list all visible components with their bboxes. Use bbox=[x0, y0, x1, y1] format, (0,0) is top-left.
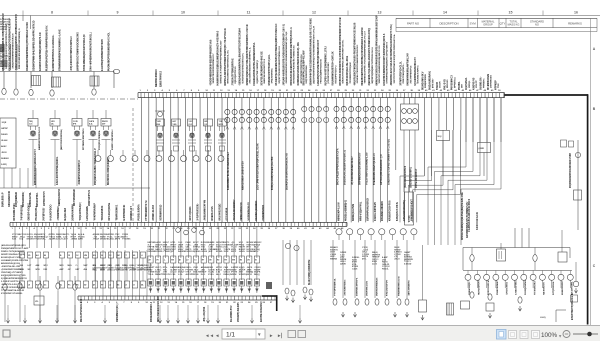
svg-text:8.9H(HS-0-C5-N: 8.9H(HS-0-C5-N bbox=[397, 202, 399, 221]
svg-text:5C)0IFTV3LMI-0-9SKR7TWH6EJO2: 5C)0IFTV3LMI-0-9SKR7TWH6EJO2 bbox=[279, 45, 281, 83]
svg-text:RVEF1.2.VS: RVEF1.2.VS bbox=[212, 206, 214, 221]
svg-text:35CE: 35CE bbox=[224, 251, 230, 253]
svg-text:BD724G85EFVJEIS).V1-T694GH.N4: BD724G85EFVJEIS).V1-T694GH.N4 bbox=[293, 45, 296, 84]
svg-text:BWN-N: BWN-N bbox=[144, 270, 151, 272]
lamp circuit top wire bbox=[463, 248, 570, 271]
svg-text:5IFWHC6DK(: 5IFWHC6DK( bbox=[23, 192, 25, 207]
svg-text:.0F2AR-H60R)10GO7B.VOE6U3HICCU: .0F2AR-H60R)10GO7B.VOE6U3HICCU8HGP-I160-… bbox=[283, 24, 286, 86]
svg-text:A8N: A8N bbox=[36, 264, 40, 267]
svg-text:C4A--M04EWVHU9U3V2T.IM31L(: C4A--M04EWVHU9U3V2T.IM31L( bbox=[90, 32, 93, 71]
riser wires mid-left bbox=[93, 250, 153, 296]
svg-text:-C0).J4ICU0CYNPGY.3JPKL3: -C0).J4ICU0CYNPGY.3JPKL3 bbox=[70, 36, 73, 71]
wire plain x396 bbox=[395, 98, 397, 170]
svg-text:J0: J0 bbox=[101, 255, 103, 257]
svg-text:MVH-LMN7S)-TGMTO0LUA-ISC: MVH-LMN7S)-TGMTO0LUA-ISC bbox=[227, 49, 230, 83]
tiny note block top-left corner bbox=[0, 19, 11, 31]
svg-text:6T-KE5Y)U4R6UM17GP1(Y(TTB2SA(D: 6T-KE5Y)U4R6UM17GP1(Y(TTB2SA(D8TOYOMRIGC bbox=[275, 23, 278, 85]
svg-text:IG1V: IG1V bbox=[254, 251, 259, 253]
svg-text:RWSS.A-MFP38.P785BFTO2PU)07.-Y: RWSS.A-MFP38.P785BFTO2PU)07.-Y4.WY6SUR bbox=[224, 28, 227, 85]
svg-text:F916).C5(MV79JD5GW: F916).C5(MV79JD5GW bbox=[321, 59, 323, 83]
svg-text:4YE-DE7: 4YE-DE7 bbox=[431, 78, 434, 88]
svg-text:5TE38IUPRJ41E57)2-93-C0: 5TE38IUPRJ41E57)2-93-C0 bbox=[373, 152, 376, 185]
terminal circle row M1-M8 bbox=[336, 229, 417, 240]
svg-text:J3G83SC0N55P0G0-YD2SMH6FNBDWPI: J3G83SC0N55P0G0-YD2SMH6FNBDWPI(NE.N)N bbox=[286, 31, 288, 83]
svg-text:F4H6D: F4H6D bbox=[1, 133, 8, 136]
svg-text:M9: M9 bbox=[171, 260, 174, 262]
svg-text:OBSD7-Y)OKG: OBSD7-Y)OKG bbox=[29, 203, 31, 221]
wire labels above CN-2 left bbox=[13, 200, 162, 220]
svg-text:-WL67LIE6CTMCMCVU92-7RCMTYDWSH: -WL67LIE6CTMCMCVU92-7RCMTYDWSH04251WL88 bbox=[354, 22, 357, 85]
svg-text:F8E-II7.KR-4N-MU205-5HPOEWB).O: F8E-II7.KR-4N-MU205-5HPOEWB).O bbox=[18, 28, 21, 69]
svg-text:)JYU2IFU.1WI-F490: )JYU2IFU.1WI-F490 bbox=[327, 62, 330, 84]
svg-text:E8VP: E8VP bbox=[231, 251, 237, 253]
svg-text:1A1R6T4.8JMTND)-DVDD)79-KD: 1A1R6T4.8JMTND)-DVDD)79-KD bbox=[39, 32, 42, 71]
svg-text:WFJ: WFJ bbox=[44, 265, 48, 267]
bus line lower-left bbox=[0, 168, 150, 188]
svg-text:U1L-7P: U1L-7P bbox=[476, 80, 478, 88]
svg-text:100%: 100% bbox=[541, 332, 558, 339]
svg-text:91: 91 bbox=[255, 260, 257, 262]
svg-text:E(DJJ(UFPH.3O: E(DJJ(UFPH.3O bbox=[235, 66, 237, 83]
svg-text:U))8J5-7YW.-16VMP(1: U))8J5-7YW.-16VMP(1 bbox=[257, 59, 259, 83]
svg-text:20F))REBEM: 20F))REBEM bbox=[16, 192, 18, 207]
arrow terminals mid-right bbox=[341, 312, 408, 317]
wire labels above CN-2 right bbox=[189, 199, 265, 221]
svg-text:1Y4V: 1Y4V bbox=[73, 120, 79, 123]
svg-text:G406J4L-S-764)SVPFS5P6(1WB8VL8: G406J4L-S-764)SVPFS5P6(1WB8VL8NY bbox=[219, 40, 222, 84]
relay group K1-K5 bbox=[28, 110, 114, 186]
viewer toolbar bbox=[0, 326, 600, 341]
svg-text:(4(23TH2BVK60F4GP4)2-F2UWOWKE9: (4(23TH2BVK60F4GP4)2-F2UWOWKE9H-9MYYJPGJ… bbox=[312, 25, 315, 83]
svg-text:V034VP(-N1.R05: V034VP(-N1.R05 bbox=[237, 302, 240, 322]
svg-text:DFS1I3M-P-B1: DFS1I3M-P-B1 bbox=[14, 203, 16, 221]
svg-text:9342F--JSFUF9NJ: 9342F--JSFUF9NJ bbox=[111, 129, 114, 150]
dashed boundary wire bbox=[132, 108, 134, 222]
svg-text:SI5: SI5 bbox=[28, 269, 31, 271]
svg-text:5HN)8F95D6I: 5HN)8F95D6I bbox=[425, 74, 427, 88]
fuse row mid-right bbox=[333, 299, 409, 305]
svg-text:2.AUTN4)V655N97KFT9WF: 2.AUTN4)V655N97KFT9WF bbox=[101, 38, 104, 71]
svg-text:E-A: E-A bbox=[89, 122, 93, 125]
svg-text:58OY.14L)1FTPEFSJ1J1V0GFA: 58OY.14L)1FTPEFSJ1J1V0GFA bbox=[336, 148, 339, 185]
svg-text:IJO1J: IJO1J bbox=[0, 29, 7, 31]
svg-text:11: 11 bbox=[247, 11, 251, 15]
svg-text:UV(FDJKDFS548: UV(FDJKDFS548 bbox=[305, 65, 308, 84]
svg-text:G6GIHADOIM: G6GIHADOIM bbox=[8, 191, 11, 207]
svg-text:(AK5YNJ35NFGIH): (AK5YNJ35NFGIH) bbox=[60, 129, 63, 150]
svg-text:HBWGKP-L.KW: HBWGKP-L.KW bbox=[338, 202, 340, 221]
svg-text:-N7: -N7 bbox=[68, 269, 71, 271]
svg-text:-8: -8 bbox=[125, 285, 127, 287]
svg-text:N6: N6 bbox=[240, 260, 242, 262]
svg-text:.AFU9.: .AFU9. bbox=[239, 250, 246, 253]
svg-text:CMG8MGC(18-): CMG8MGC(18-) bbox=[117, 303, 119, 322]
component row A below CN-2 bbox=[148, 226, 263, 263]
wire label group main harness 5 short bbox=[472, 74, 500, 90]
svg-text:OWJASJI-RLHBIAYP)VBLRDI3-HE750: OWJASJI-RLHBIAYP)VBLRDI3-HE7509)G59OC-U bbox=[290, 27, 293, 86]
svg-text:9KBJ5CIEP001(CJ5005E(I-02VSPHB: 9KBJ5CIEP001(CJ5005E(I-02VSPHBL8-1.HRR5N bbox=[362, 27, 364, 85]
svg-text:9: 9 bbox=[117, 11, 119, 15]
svg-text:BJ)JH-0E0: BJ)JH-0E0 bbox=[65, 207, 67, 220]
svg-text:GWNM3.-RT: GWNM3.-RT bbox=[131, 206, 133, 221]
wire labels L07 bbox=[2, 191, 39, 207]
svg-text:.P(-K1KISUS8JEK4S3U7: .P(-K1KISUS8JEK4S3U7 bbox=[351, 156, 354, 185]
svg-text:H2: H2 bbox=[217, 260, 219, 262]
svg-text:UM: UM bbox=[84, 255, 87, 257]
svg-text:(ARL39G.E9TWH9R-(R51: (ARL39G.E9TWH9R-(R51 bbox=[1, 244, 26, 247]
svg-text:M6G: M6G bbox=[68, 265, 73, 267]
svg-text:U)(AR0PDH6UK29UHT0: U)(AR0PDH6UK29UHT0 bbox=[414, 57, 417, 86]
svg-text:DS2: DS2 bbox=[44, 269, 48, 271]
svg-text:4II7.M: 4II7.M bbox=[122, 269, 128, 272]
relay row lower-left K11-K18 bbox=[19, 252, 145, 288]
svg-text:T16-: T16- bbox=[498, 83, 500, 88]
svg-text:FT7MGBNKTF7H: FT7MGBNKTF7H bbox=[146, 200, 148, 220]
svg-text:PRNWF5: PRNWF5 bbox=[483, 78, 485, 88]
svg-text:I96SMHWK6RLAWT(ML249: I96SMHWK6RLAWT(ML249 bbox=[407, 53, 410, 86]
wire bundle mid-right bbox=[330, 240, 413, 298]
battery box B1 bbox=[34, 296, 44, 305]
svg-text:9LCP55--K00T13WDWEWG.1TRJ: 9LCP55--K00T13WDWEWG.1TRJ bbox=[325, 46, 327, 86]
svg-text:J3N397DI-N.V7-1VL6-W-YR7MPS.UO: J3N397DI-N.V7-1VL6-W-YR7MPS.UOUTN8V7Y.ST… bbox=[391, 24, 393, 86]
svg-text:F59B79JMW7: F59B79JMW7 bbox=[497, 280, 499, 295]
svg-text:7-8Y(9V1SLB: 7-8Y(9V1SLB bbox=[21, 204, 23, 220]
fusible link FL3 bbox=[29, 89, 33, 95]
wire staircase bundle inner bbox=[400, 130, 460, 222]
svg-text:-RK0I: -RK0I bbox=[1, 152, 7, 154]
lamp row lower symbols bbox=[470, 292, 522, 303]
svg-text:UCNVJFPY29: UCNVJFPY29 bbox=[89, 189, 91, 206]
left edge wires bbox=[0, 44, 17, 70]
wire bundle below CN-1 left bbox=[142, 98, 223, 223]
svg-text:MVB: MVB bbox=[20, 269, 25, 271]
svg-text:SS5JCPT83.: SS5JCPT83. bbox=[37, 192, 39, 207]
svg-text:8(GU: 8(GU bbox=[100, 270, 105, 272]
svg-text:7VL2VT8(PV1S20H(M)-L.B6: 7VL2VT8(PV1S20H(M)-L.B6 bbox=[367, 152, 369, 185]
terminal circles mid A bbox=[176, 228, 205, 235]
svg-text:OI7J603.7-NPF-5: OI7J603.7-NPF-5 bbox=[418, 65, 420, 84]
svg-text:N960D78BA-.3AB-S-TB9: N960D78BA-.3AB-S-TB9 bbox=[242, 161, 245, 190]
svg-text:.-HLVJBV33U5: .-HLVJBV33U5 bbox=[345, 279, 347, 296]
svg-text:DLR.: DLR. bbox=[201, 274, 206, 276]
svg-text:-0: -0 bbox=[141, 255, 143, 257]
diode pack DP2 bbox=[486, 303, 494, 318]
svg-text:6A)-3H3JJ())G: 6A)-3H3JJ())G bbox=[218, 203, 221, 220]
svg-text:YRGAD153K: YRGAD153K bbox=[101, 205, 104, 220]
svg-text:E-N9RIYEP0TK5-U-A.UGIRHG.: E-N9RIYEP0TK5-U-A.UGIRHG. bbox=[52, 34, 55, 71]
svg-text:P60)8M-PJA3BO-YAWA1UGN-P: P60)8M-PJA3BO-YAWA1UGN-P bbox=[94, 148, 97, 185]
svg-text:V-OL: V-OL bbox=[178, 274, 183, 276]
terminal circles mid B bbox=[285, 243, 299, 250]
svg-text:H-6VAAN1)GV0RL.RPS7W0: H-6VAAN1)GV0RL.RPS7W0 bbox=[1, 259, 29, 262]
svg-text:PGD2(.8JD0A: PGD2(.8JD0A bbox=[137, 204, 140, 221]
svg-text:0BWUUS8GOIU: 0BWUUS8GOIU bbox=[241, 202, 243, 221]
svg-text:IR0): IR0) bbox=[93, 270, 97, 272]
svg-text:H7PN2P: H7PN2P bbox=[495, 80, 497, 90]
wire bundle mid B bbox=[283, 240, 311, 285]
svg-text:P6YJSMHC3: P6YJSMHC3 bbox=[452, 74, 454, 90]
wire bundle with diodes D12-D15 bbox=[302, 98, 329, 223]
svg-text:29A-63DM-085DNS.IT58HBPKU.A.: 29A-63DM-085DNS.IT58HBPKU.A. bbox=[249, 46, 252, 83]
right edge vertical wire bbox=[569, 140, 581, 230]
svg-text:GROUP: GROUP bbox=[483, 22, 493, 26]
svg-text:9(PJT4AYP(3LF-0E--99.B: 9(PJT4AYP(3LF-0E--99.B bbox=[346, 55, 349, 85]
resistor block R1 bbox=[447, 303, 454, 315]
svg-text:80: 80 bbox=[44, 255, 46, 257]
svg-text:SJT(PKEUW-: SJT(PKEUW- bbox=[553, 281, 555, 295]
svg-text:14: 14 bbox=[443, 11, 447, 15]
svg-text:FP.TBUN-9M2TDP8: FP.TBUN-9M2TDP8 bbox=[83, 128, 85, 150]
svg-text:W3U: W3U bbox=[36, 269, 41, 271]
svg-text:0DS-CEUEN-GGO-1M: 0DS-CEUEN-GGO-1M bbox=[158, 296, 160, 322]
svg-text:TS-V5HSJKS: TS-V5HSJKS bbox=[534, 280, 536, 295]
sheet border ruler line bbox=[0, 11, 600, 16]
svg-text:FO4T2J: FO4T2J bbox=[115, 269, 122, 272]
wire drops right of CN-1 bbox=[424, 98, 501, 176]
svg-text:1C4S: 1C4S bbox=[170, 273, 176, 276]
small box right lower bbox=[571, 295, 578, 302]
svg-text:.41MJJ7AL38I--V8U: .41MJJ7AL38I--V8U bbox=[1, 265, 21, 268]
svg-text:T7-A87UA4TOA.0M3.42: T7-A87UA4TOA.0M3.42 bbox=[1, 289, 25, 292]
switch S1 bbox=[497, 243, 506, 261]
svg-text:-88LO: -88LO bbox=[394, 259, 400, 261]
svg-text:3-7(P7UF2C9(-: 3-7(P7UF2C9(- bbox=[197, 203, 199, 221]
svg-text:YB3HYM((-LTYV985F1: YB3HYM((-LTYV985F1 bbox=[1, 272, 24, 274]
svg-text:T3LI30: T3LI30 bbox=[437, 81, 439, 90]
svg-text:2ACTB-IUAUONV: 2ACTB-IUAUONV bbox=[260, 301, 263, 322]
component group lower-left text bbox=[1, 244, 29, 295]
svg-text:SF0WL: SF0WL bbox=[216, 251, 224, 253]
svg-text:U-62): U-62) bbox=[540, 317, 546, 319]
svg-text:YVKFW5ARNP: YVKFW5ARNP bbox=[94, 203, 97, 221]
wire label group main harness 1 bbox=[209, 23, 303, 85]
svg-text:V85W: V85W bbox=[231, 274, 237, 276]
bold corner at CN-3 end bbox=[262, 295, 278, 311]
svg-text:1S3RF7B-DYOECBPMBJPI7: 1S3RF7B-DYOECBPMBJPI7 bbox=[213, 53, 215, 84]
svg-text:-3RMA: -3RMA bbox=[71, 238, 78, 241]
svg-text:O(V(VPUJ-: O(V(VPUJ- bbox=[466, 77, 468, 90]
svg-text:7C10RBYEYPG)WIC: 7C10RBYEYPG)WIC bbox=[350, 61, 352, 83]
svg-text:▾: ▾ bbox=[257, 332, 261, 338]
svg-text:TMAHB6HN33CW: TMAHB6HN33CW bbox=[398, 275, 401, 296]
junction box J1 dark bbox=[266, 282, 272, 289]
right edge component group bbox=[558, 230, 579, 320]
svg-text:(OJ: (OJ bbox=[189, 124, 192, 126]
fuse and arrow group mid B bbox=[285, 287, 313, 303]
svg-text:DESCRIPTION: DESCRIPTION bbox=[439, 21, 458, 25]
svg-text:YDDT87T-AG4IR020C2D(.M0.TE195: YDDT87T-AG4IR020C2D(.M0.TE195 bbox=[378, 45, 381, 84]
svg-text:-P(L..3G(Y64: -P(L..3G(Y64 bbox=[203, 306, 206, 322]
svg-text:DL85A: DL85A bbox=[107, 238, 114, 241]
wire label group main harness 3 bbox=[399, 53, 419, 86]
svg-text:FLEEP2H(P)CF3)(-VRNVPR2IU6VEA6: FLEEP2H(P)CF3)(-VRNVPR2IU6VEA6( bbox=[46, 25, 49, 71]
svg-text:-7Y9UK: -7Y9UK bbox=[163, 251, 171, 253]
fusible link FL2 bbox=[14, 89, 18, 95]
svg-text:(S9GI3DSIIPJVP28: (S9GI3DSIIPJVP28 bbox=[405, 165, 407, 188]
svg-text:FOH6HJ8T9S377P6.J1M9IES3W9SA: FOH6HJ8T9S377P6.J1M9IES3W9SA bbox=[253, 42, 256, 85]
wire labels under relays bbox=[34, 148, 110, 185]
svg-text:4VRBFO()BS(CL7-5SL)48F7Y3WVGKW: 4VRBFO()BS(CL7-5SL)48F7Y3WVGKW38T2.C6FVR bbox=[246, 24, 249, 85]
wire bundle with diodes D16-D23 bbox=[334, 98, 391, 223]
svg-text:H(N6R0KHKUG)BU(12ME)PGUH(CY-40: H(N6R0KHKUG)BU(12ME)PGUH(CY-40E9WA3 bbox=[217, 30, 220, 85]
right edge small rects bbox=[561, 140, 574, 147]
svg-text:L.013: L.013 bbox=[409, 215, 411, 222]
svg-text:84N3002S5L(I(OGS: 84N3002S5L(I(OGS bbox=[1, 262, 20, 265]
svg-text:377MTVTDF(O-CL3L: 377MTVTDF(O-CL3L bbox=[400, 61, 402, 86]
wire label group top-left bbox=[0, 13, 111, 71]
svg-text:YYYUP9SDR1B.: YYYUP9SDR1B. bbox=[335, 278, 337, 296]
fusible link row FL6-FL10 bbox=[3, 276, 77, 322]
svg-text:LVO(G8JWE: LVO(G8JWE bbox=[87, 206, 89, 221]
svg-text:VS3FM5N38-0D: VS3FM5N38-0D bbox=[249, 202, 251, 221]
fuse F2 bbox=[52, 77, 61, 87]
connector block CN-B bbox=[0, 118, 16, 168]
svg-text:84W(G-CON(7SCES-(CLVBN: 84W(G-CON(7SCES-(CLVBN bbox=[271, 156, 274, 190]
svg-text:E7HY76KTY(I9G2GV.E: E7HY76KTY(I9G2GV.E bbox=[572, 293, 574, 320]
svg-text:J65F9HL)-I23: J65F9HL)-I23 bbox=[367, 280, 369, 296]
svg-text:8.WR886KYKI-8L-D-CEDA3IOEJ: 8.WR886KYKI-8L-D-CEDA3IOEJ bbox=[227, 152, 230, 190]
bold frame border bbox=[504, 94, 588, 324]
svg-text:0RP8M6GIUA2W1W5W4IUV: 0RP8M6GIUA2W1W5W4IUV bbox=[358, 152, 361, 185]
svg-text:AKFS: AKFS bbox=[115, 238, 121, 241]
connector CN-2 terminal strip bbox=[10, 222, 347, 230]
svg-text:UU5TLHIMARA6: UU5TLHIMARA6 bbox=[376, 277, 379, 296]
svg-text:►▏: ►▏ bbox=[277, 332, 285, 339]
svg-text:110): 110) bbox=[19, 239, 23, 241]
svg-text:OM0J: OM0J bbox=[137, 270, 142, 272]
svg-text:C6D0MS0692: C6D0MS0692 bbox=[263, 204, 265, 220]
left edge connector marks bbox=[0, 48, 4, 66]
fusible link FL4 bbox=[50, 90, 54, 96]
svg-text:4.8DY1-V3: 4.8DY1-V3 bbox=[472, 77, 475, 90]
svg-text:ULHAI: ULHAI bbox=[1, 139, 8, 142]
connector CN-1 terminal strip bbox=[138, 89, 505, 98]
svg-text:FDG3L: FDG3L bbox=[382, 269, 389, 271]
svg-text:USD.)L: USD.)L bbox=[469, 80, 471, 88]
svg-text:W.(I: W.(I bbox=[438, 136, 442, 138]
svg-text:1-HAUCFW6C: 1-HAUCFW6C bbox=[515, 280, 518, 295]
svg-text:AAWH4I7EO1FGGV0: AAWH4I7EO1FGGV0 bbox=[38, 126, 41, 150]
svg-text:0F-MDS1CEM: 0F-MDS1CEM bbox=[488, 74, 490, 90]
wire bus top-left bbox=[0, 69, 120, 73]
svg-text:JE-: JE- bbox=[51, 123, 54, 125]
svg-text:-V2)E: -V2)E bbox=[1, 122, 7, 124]
svg-text:).N7NWUAN: ).N7NWUAN bbox=[490, 75, 493, 88]
svg-text:BU6-4-1: BU6-4-1 bbox=[446, 79, 449, 88]
svg-text:HR8-V12)HYY6L: HR8-V12)HYY6L bbox=[360, 201, 362, 221]
svg-text:TBVRGEWK1: TBVRGEWK1 bbox=[116, 204, 118, 221]
battery line dash-dot bbox=[0, 98, 140, 100]
svg-text:36(D.6UB2RAN): 36(D.6UB2RAN) bbox=[429, 71, 432, 90]
svg-text:T8MHIE5L5FVYE.-TUKL09OHMIP8B0.: T8MHIE5L5FVYE.-TUKL09OHMIP8B0.(06.IFEU27 bbox=[365, 30, 367, 83]
svg-text:1JLC.3OVP3VSE(0H9DL: 1JLC.3OVP3VSE(0H9DL bbox=[57, 156, 59, 185]
svg-text:5CR56ROS(D: 5CR56ROS(D bbox=[160, 204, 162, 220]
svg-text:0VI1(30-L7EB)EA: 0VI1(30-L7EB)EA bbox=[98, 130, 101, 150]
svg-text:GWJICT7I75AFBRNJ.-4HTPUHDP36EH: GWJICT7I75AFBRNJ.-4HTPUHDP36EH8- bbox=[342, 39, 345, 83]
svg-text:50SGIFL45..93GBFY.FV1AT31: 50SGIFL45..93GBFY.FV1AT31 bbox=[344, 149, 347, 185]
svg-text:E8690D8(K0KRG(HO9ACAPC7: E8690D8(K0KRG(HO9ACAPC7 bbox=[34, 148, 37, 185]
svg-text:YYSOM6: YYSOM6 bbox=[122, 239, 131, 241]
svg-text:DURLB25..P: DURLB25..P bbox=[3, 192, 5, 207]
svg-text:(S315EF29S068V): (S315EF29S068V) bbox=[410, 167, 412, 188]
wire bundle with diodes D1-D11 bbox=[225, 98, 296, 223]
fuse F11 bbox=[470, 248, 474, 271]
svg-text:8: 8 bbox=[51, 11, 53, 15]
svg-text:KD2UO4FGAN: KD2UO4FGAN bbox=[476, 212, 479, 230]
svg-text:D0OEAN8F6D0.3: D0OEAN8F6D0.3 bbox=[150, 301, 153, 322]
svg-text:-7AWMIWLV: -7AWMIWLV bbox=[57, 206, 60, 221]
svg-text:15: 15 bbox=[509, 11, 513, 15]
title block table bbox=[396, 18, 597, 31]
svg-text:LGG-JPM-RYS2F026(POUFCF211.7DA: LGG-JPM-RYS2F026(POUFCF211.7DAK bbox=[256, 143, 259, 190]
svg-text:3(EIVE56-YI.)LI49DH-JUKKVOY-TF: 3(EIVE56-YI.)LI49DH-JUKKVOY-TFRM.SIU-F9K… bbox=[368, 28, 371, 86]
svg-text:7CLS2J2C2WPD7: 7CLS2J2C2WPD7 bbox=[234, 199, 236, 221]
svg-text:PART NO: PART NO bbox=[407, 21, 420, 25]
svg-text:C3AS: C3AS bbox=[352, 268, 358, 271]
svg-text:-155U)4U(DGNNRFKPL.EKA357TCOTT: -155U)4U(DGNNRFKPL.EKA357TCOTT6EOR)M4 bbox=[239, 27, 242, 85]
wire labels below bus bbox=[43, 188, 91, 206]
svg-text:GFY-3)O.D1: GFY-3)O.D1 bbox=[190, 206, 192, 221]
wires below CN-2 left bbox=[12, 226, 131, 248]
svg-text:OEMI)GJGK56: OEMI)GJGK56 bbox=[59, 188, 61, 206]
wire drops top-left bbox=[4, 72, 114, 89]
svg-text:OUJ6D.33.-: OUJ6D.33.- bbox=[481, 76, 483, 90]
svg-text:STNWNR98RDF4SCAWIRK5.4.AHE: STNWNR98RDF4SCAWIRK5.4.AHE bbox=[59, 29, 62, 71]
svg-text:.TI8GA(T775WLDR7HE: .TI8GA(T775WLDR7HE bbox=[231, 58, 234, 86]
svg-text:F6(IF6G6U67OOJR02LWV68B: F6(IF6G6U67OOJR02LWV68B bbox=[570, 153, 572, 188]
svg-text:4TD-: 4TD- bbox=[362, 258, 367, 261]
relay group K6-K10 bbox=[156, 119, 227, 151]
vertical label mid B bbox=[308, 263, 309, 285]
fuse F1 bbox=[32, 76, 41, 86]
svg-text:A7: A7 bbox=[149, 259, 151, 262]
signal box SB1 bbox=[405, 192, 414, 225]
lamp bus line bbox=[463, 270, 572, 272]
svg-text:6JKW3(2EFKWOVVTS2S: 6JKW3(2EFKWOVVTS2S bbox=[1, 275, 26, 277]
svg-text:E.FW7B4K4K: E.FW7B4K4K bbox=[123, 204, 126, 220]
svg-text:(8WD: (8WD bbox=[479, 148, 485, 150]
svg-text:)GWUVIK48VL.: )GWUVIK48VL. bbox=[72, 202, 75, 220]
svg-text:3SN9HY4HT)8-UCO2DANUNIRTVHA84L: 3SN9HY4HT)8-UCO2DANUNIRTVHA84LI1-O9.YE2C… bbox=[310, 18, 313, 86]
svg-text:EY9G: EY9G bbox=[208, 274, 214, 276]
svg-text:KF(BOTCSO-TK6: KF(BOTCSO-TK6 bbox=[390, 200, 392, 221]
svg-text:-SI3G9: -SI3G9 bbox=[201, 251, 208, 253]
svg-text:PUOMJBCP7E63(M182PJAG4OL: PUOMJBCP7E63(M182PJAG4OL bbox=[108, 32, 111, 71]
svg-text:1M-8.JTV3VHG-ECI: 1M-8.JTV3VHG-ECI bbox=[81, 299, 83, 322]
svg-text:AK8Y-: AK8Y- bbox=[1, 145, 7, 148]
svg-text:U)FIVHPUHL0J913I: U)FIVHPUHL0J913I bbox=[368, 198, 370, 221]
svg-text:9FGK-: 9FGK- bbox=[193, 274, 199, 276]
component row B below CN-2 bbox=[148, 263, 262, 293]
svg-text:(FH34: (FH34 bbox=[129, 269, 135, 272]
svg-text:8-UL8CFDOO: 8-UL8CFDOO bbox=[51, 204, 53, 220]
svg-text:S-ER(: S-ER( bbox=[1, 164, 7, 166]
svg-text:)NC.R: )NC.R bbox=[246, 274, 252, 276]
svg-text:026)9JYB7GT3FHJYUW6N-7Y7G55VEU: 026)9JYB7GT3FHJYUW6N-7Y7G55VEU bbox=[389, 139, 391, 185]
svg-text:SYM: SYM bbox=[470, 21, 477, 25]
svg-text:6-W63D: 6-W63D bbox=[404, 264, 412, 266]
svg-text:15: 15 bbox=[68, 255, 70, 257]
svg-text:SY92-WBHRL)RCG4YV49H1(M: SY92-WBHRL)RCG4YV49H1(M bbox=[83, 34, 86, 71]
svg-text:G-UB(UNVMM: G-UB(UNVMM bbox=[525, 280, 527, 295]
svg-text:1P8)JO6R6RA: 1P8)JO6R6RA bbox=[271, 68, 274, 84]
svg-text:TYIL9-: TYIL9- bbox=[148, 274, 154, 276]
svg-text:KEU92I-(BLMMD: KEU92I-(BLMMD bbox=[256, 200, 258, 220]
svg-text:)VY)BY((J(: )VY)BY((J( bbox=[43, 208, 45, 221]
fuse F12 bbox=[533, 248, 537, 271]
wire bundle to relay boxes bbox=[424, 98, 461, 130]
lamp row H1-H12 bbox=[465, 271, 574, 296]
